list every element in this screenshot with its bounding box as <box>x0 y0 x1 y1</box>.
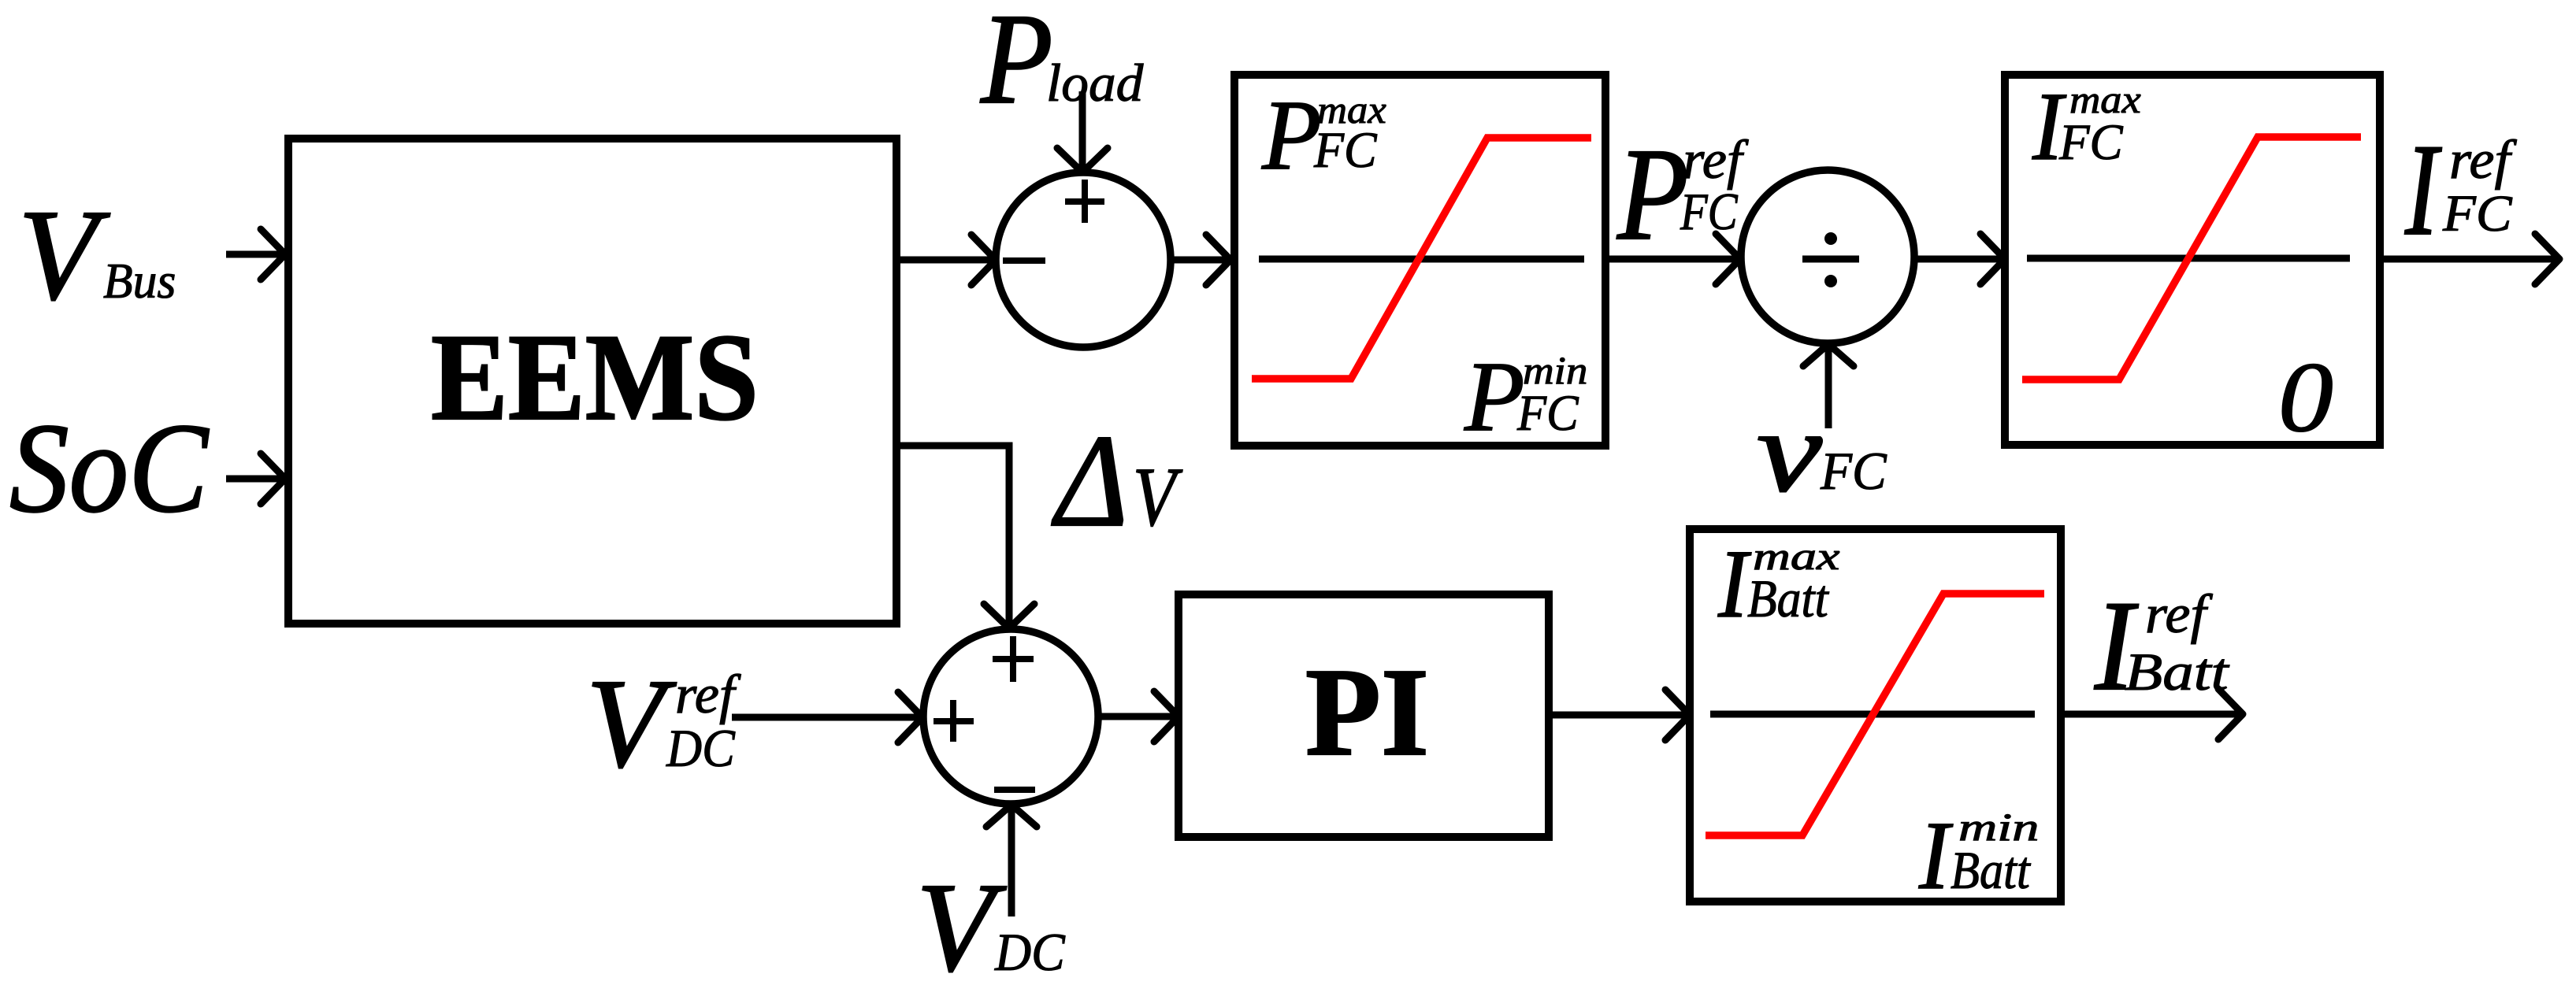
svg-text:P: P <box>1616 121 1688 268</box>
wire divider to SAT2 <box>1914 234 2005 284</box>
svg-text:PI: PI <box>1305 642 1429 782</box>
svg-text:Batt: Batt <box>1747 568 1830 628</box>
wire V_Bus input arrow <box>226 229 285 280</box>
saturation block SAT2 <box>2005 75 2380 445</box>
svg-text:ref: ref <box>675 665 741 725</box>
summing junction S1 <box>996 172 1171 347</box>
wire SAT3 output <box>2061 689 2243 739</box>
node v_FC <box>1757 387 1887 517</box>
svg-text:DC: DC <box>994 922 1065 982</box>
svg-text:V: V <box>916 857 1007 985</box>
svg-text:Batt: Batt <box>2125 642 2230 702</box>
block PI <box>1179 594 1549 837</box>
wire V_DC into S2 <box>986 805 1037 916</box>
svg-text:SoC: SoC <box>9 398 210 539</box>
node DeltaV <box>1051 408 1182 554</box>
svg-text:P: P <box>1261 80 1322 191</box>
svg-text:ref: ref <box>1683 130 1749 191</box>
svg-text:V: V <box>1133 451 1182 544</box>
wire EEMS to summing junction S1 <box>896 235 996 285</box>
svg-text:P: P <box>980 0 1053 131</box>
svg-text:FC: FC <box>1820 441 1887 501</box>
wire V_DC_ref into S2 <box>732 692 922 742</box>
svg-text:FC: FC <box>2442 185 2513 243</box>
svg-text:Δ: Δ <box>1051 408 1128 554</box>
block EEMS <box>288 139 896 624</box>
wire EEMS DeltaV to summing junction S2 <box>896 446 1034 628</box>
node P_FC_ref <box>1616 121 1749 268</box>
svg-text:FC: FC <box>2058 114 2123 171</box>
wire P_load into S1 <box>1057 91 1108 172</box>
node V_DC <box>916 857 1065 985</box>
node I_Batt_ref <box>2094 575 2230 717</box>
wire v_FC into divider <box>1803 344 1854 428</box>
label P_FC_min <box>1464 342 1587 452</box>
svg-text:ref: ref <box>2145 584 2213 645</box>
svg-text:V: V <box>18 183 110 327</box>
label I_Batt_min <box>1918 802 2039 909</box>
svg-text:I: I <box>1918 802 1954 909</box>
wire S1 to saturation SAT1 <box>1171 235 1230 285</box>
svg-text:FC: FC <box>1313 122 1377 179</box>
node V_Bus <box>18 183 176 327</box>
svg-text:ref: ref <box>2449 130 2517 191</box>
wire SAT2 output <box>2380 234 2559 284</box>
svg-text:v: v <box>1757 387 1822 517</box>
divider U1 <box>1741 170 1914 343</box>
svg-text:Batt: Batt <box>1951 840 2032 900</box>
node P_load <box>980 0 1144 131</box>
svg-text:EEMS: EEMS <box>431 309 759 446</box>
label I_FC_max <box>2032 72 2141 180</box>
wire PI to SAT3 <box>1549 690 1690 740</box>
label P_FC_max <box>1261 80 1386 191</box>
saturation block SAT1 <box>1234 75 1605 446</box>
svg-text:DC: DC <box>666 718 735 778</box>
label I_Batt_max <box>1717 530 1839 638</box>
svg-text:load: load <box>1046 53 1144 113</box>
svg-text:0: 0 <box>2278 343 2333 453</box>
wire SoC input arrow <box>226 454 285 504</box>
svg-text:V: V <box>586 654 677 794</box>
wire S2 to PI <box>1098 691 1179 742</box>
svg-text:Bus: Bus <box>103 253 176 309</box>
summing junction S2 <box>923 629 1098 804</box>
saturation block SAT3 <box>1690 529 2061 902</box>
node V_DC_ref <box>586 654 741 794</box>
svg-text:P: P <box>1464 342 1524 452</box>
node I_FC_ref <box>2404 117 2517 263</box>
svg-text:I: I <box>2404 117 2442 263</box>
svg-text:FC: FC <box>1680 183 1739 241</box>
svg-text:FC: FC <box>1516 385 1579 442</box>
wire SAT1 to divider <box>1609 234 1740 284</box>
